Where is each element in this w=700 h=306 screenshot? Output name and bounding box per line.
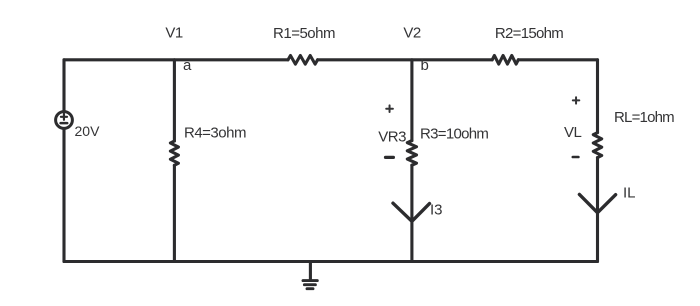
svg-text:R2=15ohm: R2=15ohm — [495, 25, 563, 42]
current arrow I3 — [393, 203, 430, 221]
wire branch V1: node a down to R4 — [173, 60, 176, 141]
wire bottom: left corner to right corner — [64, 260, 598, 263]
wire branch V1: R4 to bottom wire — [173, 165, 176, 261]
wire left: top corner down to source and to bottom corner — [62, 60, 65, 262]
svg-text:VR3: VR3 — [378, 129, 406, 146]
ground bar 2 — [304, 283, 315, 286]
ground bar 3 — [307, 287, 313, 290]
voltage source VS 20V circle — [56, 112, 73, 129]
ground bar 1 — [303, 279, 317, 282]
polarity minus of VL — [573, 156, 579, 159]
svg-text:RL=1ohm: RL=1ohm — [614, 109, 674, 126]
wire top: R1 to R2 — [318, 58, 493, 61]
svg-text:R1=5ohm: R1=5ohm — [273, 25, 335, 42]
svg-text:IL: IL — [623, 184, 636, 201]
ground stub — [309, 262, 312, 280]
svg-text:a: a — [183, 57, 192, 74]
svg-text:R3=10ohm: R3=10ohm — [420, 126, 488, 143]
svg-text:b: b — [421, 57, 429, 74]
current arrow IL — [579, 194, 615, 212]
resistor R1 zigzag — [288, 56, 318, 65]
svg-text:V1: V1 — [165, 25, 183, 42]
svg-text:VL: VL — [564, 124, 582, 141]
wire right: RL to bottom corner — [596, 158, 599, 262]
resistor RL zigzag — [593, 133, 601, 158]
wire branch V2: R3 down through arrow to bottom wire — [410, 165, 413, 261]
polarity plus of VL — [573, 97, 580, 103]
svg-text:20V: 20V — [75, 123, 101, 139]
resistor R2 zigzag — [492, 56, 518, 65]
wire branch V2: node b down to R3 — [410, 60, 413, 141]
wire top: left corner to R1 — [64, 58, 288, 61]
svg-text:R4=3ohm: R4=3ohm — [184, 125, 246, 142]
wire top: R2 to top-right corner — [518, 58, 597, 61]
svg-text:I3: I3 — [430, 202, 443, 219]
svg-text:V2: V2 — [403, 25, 421, 42]
wire right: top corner down to RL — [596, 60, 599, 133]
resistor R4 zigzag — [170, 141, 178, 165]
resistor R3 zigzag — [407, 141, 416, 166]
polarity minus of VR3 — [386, 156, 394, 159]
polarity plus of VR3 — [386, 105, 393, 112]
